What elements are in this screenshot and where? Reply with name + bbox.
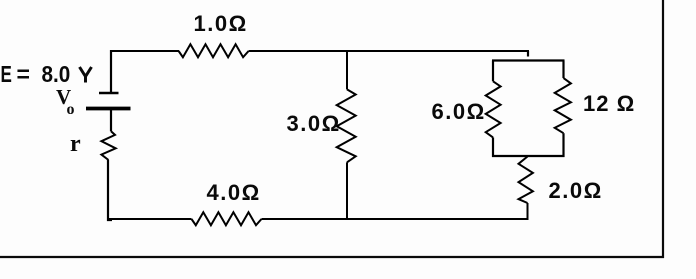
wire: short drop from top wire toward parallel box xyxy=(527,51,529,57)
svg-text:1.0Ω: 1.0Ω xyxy=(194,11,248,36)
wire: 3.0 ohm branch lower segment xyxy=(346,162,348,220)
svg-text:o: o xyxy=(67,101,75,118)
svg-text:8.0: 8.0 xyxy=(42,61,71,87)
svg-text:3.0Ω: 3.0Ω xyxy=(287,111,341,136)
svg-text:=: = xyxy=(17,61,30,87)
resistor R3 3.0 ohm (middle vertical) xyxy=(337,89,356,162)
svg-text:E: E xyxy=(1,63,12,88)
node junction of 3.0 ohm branch on top wire xyxy=(346,51,348,89)
wire: bottom wire right segment (R4 to 2.0 ohm branch) xyxy=(262,218,529,220)
resistor R1 1.0 ohm (top wire) xyxy=(179,44,249,57)
battery plate long thick (bottom) xyxy=(86,107,131,111)
svg-text:r: r xyxy=(70,131,81,157)
wire: left branch lower segment to bottom wire xyxy=(108,160,112,220)
resistor R2 2.0 ohm (below parallel box) xyxy=(519,157,533,204)
wire: parallel box top xyxy=(492,59,565,61)
resistor r (internal resistance) xyxy=(101,131,115,160)
battery plate short (top) xyxy=(99,92,119,95)
wire: parallel box left lower segment xyxy=(492,137,494,157)
frame border right edge xyxy=(662,0,664,258)
resistor R4 4.0 ohm (bottom wire) xyxy=(192,212,262,225)
wire: 2.0 ohm branch to bottom wire xyxy=(527,203,529,220)
svg-text:4.0Ω: 4.0Ω xyxy=(207,180,261,205)
wire: top wire left segment (battery to R1) xyxy=(110,50,179,52)
wire: battery branch top segment xyxy=(110,50,112,92)
svg-text:12 Ω: 12 Ω xyxy=(583,91,635,116)
wire: top wire right segment (R1 to drop) xyxy=(249,50,529,52)
svg-text:6.0Ω: 6.0Ω xyxy=(432,99,486,124)
label V-with-tail glyph after 8.0 xyxy=(80,67,92,83)
resistor R12 12 ohm (right of parallel pair) xyxy=(555,78,571,133)
resistor R6 6.0 ohm (left of parallel pair) xyxy=(486,81,501,137)
wire: battery to r resistor xyxy=(110,110,112,131)
wire: parallel box right lower segment xyxy=(562,133,564,157)
svg-text:2.0Ω: 2.0Ω xyxy=(549,178,603,203)
frame border bottom edge xyxy=(0,256,664,258)
wire: parallel box left upper segment xyxy=(492,61,494,82)
wire: parallel box bottom xyxy=(492,155,565,157)
wire: bottom wire left segment (battery branch to R4) xyxy=(107,218,192,220)
wire: parallel box right upper segment xyxy=(562,61,564,79)
